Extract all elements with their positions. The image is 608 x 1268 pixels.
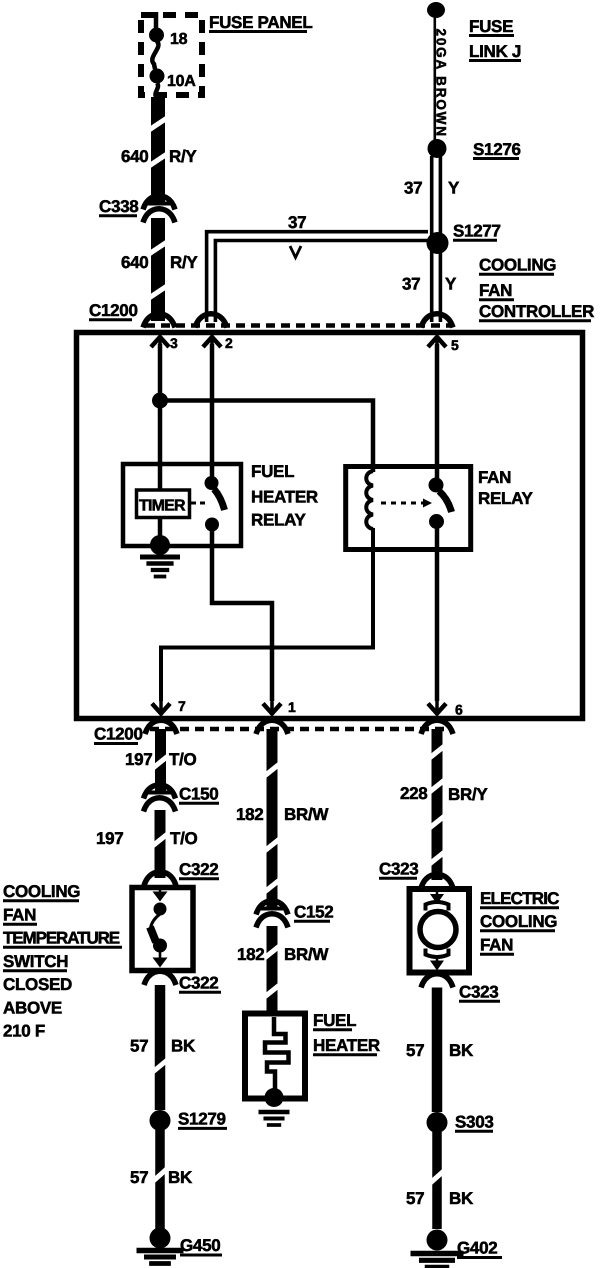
label ELECTRIC COOLING FAN [480, 889, 559, 955]
label 640 R/Y lower [121, 253, 198, 272]
wire color pointer Y [290, 246, 301, 258]
svg-text:FUEL: FUEL [313, 1011, 356, 1030]
connector C338 [143, 196, 175, 223]
label S303 [455, 1113, 494, 1132]
svg-text:TEMPERATURE: TEMPERATURE [3, 929, 120, 948]
svg-text:BK: BK [168, 1168, 193, 1187]
ground G402 [411, 1230, 464, 1268]
svg-text:FAN: FAN [479, 281, 512, 300]
svg-text:HEATER: HEATER [251, 488, 318, 507]
svg-text:BK: BK [449, 1189, 474, 1208]
wire fan contact to pin 6 [435, 528, 440, 701]
svg-text:RELAY: RELAY [251, 511, 307, 530]
fuse link wire 20GA BROWN [434, 10, 449, 141]
labels 37 Y lower right [402, 275, 457, 294]
timer U1 [137, 490, 190, 518]
pin 1 [263, 699, 296, 715]
dashed actuator link coil-contacts [381, 499, 432, 508]
svg-text:182: 182 [237, 945, 264, 964]
fuse panel dashed box [141, 15, 202, 95]
labels 197 T/O lower [96, 829, 198, 848]
svg-text:FUSE PANEL: FUSE PANEL [209, 13, 312, 32]
fuse 18 10A symbol [149, 12, 165, 98]
svg-text:S1276: S1276 [473, 140, 521, 159]
electric cooling fan box [410, 889, 470, 973]
wire 197 T/O upper [153, 729, 168, 792]
labels 57 BK lower [130, 1168, 193, 1187]
svg-text:BK: BK [171, 1037, 196, 1056]
wire 197 T/O lower [153, 810, 168, 878]
wire 57 BK right upper [432, 988, 443, 1113]
svg-text:Y: Y [448, 179, 460, 198]
svg-text:G450: G450 [180, 1236, 220, 1255]
svg-text:C150: C150 [179, 785, 218, 804]
svg-text:C1200: C1200 [89, 301, 138, 320]
wire junction to fan relay coil [160, 401, 373, 473]
svg-text:37: 37 [402, 275, 420, 294]
svg-text:2: 2 [225, 335, 233, 351]
labels 197 T/O [125, 750, 197, 769]
label G402 [457, 1239, 502, 1258]
svg-text:BR/W: BR/W [284, 805, 329, 824]
wire 640 R/Y upper segment [149, 97, 167, 204]
svg-text:57: 57 [130, 1037, 148, 1056]
ground G450 [137, 1228, 184, 1264]
label C338 [99, 197, 138, 216]
connector C150 [144, 785, 176, 812]
svg-text:FUSE: FUSE [469, 17, 513, 36]
label C323 lower [459, 983, 500, 1002]
labels 57 BK right lower [406, 1189, 474, 1208]
cooling fan temperature switch box [132, 888, 193, 971]
fuse link J terminal dot [427, 2, 445, 18]
svg-text:COOLING: COOLING [3, 882, 80, 901]
bell pin 1 [256, 720, 288, 734]
svg-text:COOLING: COOLING [479, 256, 556, 275]
connector bell pin 3 [143, 314, 175, 328]
label FUSE LINK J [469, 17, 521, 61]
label S1279 [178, 1110, 227, 1129]
svg-text:197: 197 [125, 750, 152, 769]
pin 2 [203, 335, 233, 478]
label C152 [294, 903, 333, 922]
ground (timer) [140, 557, 180, 577]
ground (fuel heater) [259, 1112, 290, 1125]
svg-text:HEATER: HEATER [313, 1036, 380, 1055]
splice S1277 [427, 232, 449, 254]
connector C322 lower bell [144, 971, 176, 985]
svg-text:640: 640 [121, 147, 148, 166]
svg-text:FAN: FAN [478, 468, 511, 487]
svg-text:T/O: T/O [169, 750, 197, 769]
wire 228 BR/Y [430, 729, 445, 880]
fan relay coil [366, 471, 373, 529]
label FUSE PANEL [209, 13, 312, 32]
label G450 [180, 1236, 222, 1255]
svg-text:182: 182 [236, 805, 263, 824]
label C150 [179, 785, 219, 804]
svg-text:640: 640 [121, 253, 148, 272]
svg-text:228: 228 [400, 784, 427, 803]
labels 182 BR/W lower [237, 945, 329, 964]
heater ground node [265, 1088, 284, 1107]
svg-text:S303: S303 [455, 1113, 494, 1132]
svg-text:C338: C338 [99, 197, 138, 216]
svg-text:7: 7 [178, 698, 186, 714]
dashed actuator link timer-contacts [191, 502, 209, 505]
svg-text:S1277: S1277 [453, 222, 501, 241]
svg-text:SWITCH: SWITCH [3, 952, 68, 971]
svg-text:ABOVE: ABOVE [3, 999, 62, 1018]
label S1276 [473, 140, 521, 159]
label FUEL HEATER RELAY [251, 462, 318, 530]
wire coil to pin 7 [161, 528, 373, 701]
label COOLING FAN TEMPERATURE SWITCH CLOSED ABOVE 210 F [3, 882, 122, 1041]
labels 57 BK right [406, 1041, 474, 1060]
pin 7 [152, 698, 186, 714]
fuel heater relay contacts [205, 476, 225, 532]
bell pin 7 [145, 720, 177, 734]
pin 3 [151, 335, 178, 400]
pin 5 [428, 337, 459, 480]
labels 57 BK [130, 1037, 196, 1056]
svg-text:57: 57 [406, 1189, 424, 1208]
svg-text:57: 57 [130, 1168, 148, 1187]
fuel heater relay box [123, 464, 241, 546]
labels 228 BR/Y [400, 784, 488, 804]
heater element [265, 1017, 289, 1090]
svg-text:210 F: 210 F [3, 1022, 45, 1041]
svg-text:20GA BROWN: 20GA BROWN [434, 29, 449, 137]
wire 57 BK left lower [153, 1130, 167, 1229]
svg-text:T/O: T/O [170, 829, 198, 848]
fuel heater box [245, 1014, 305, 1099]
label COOLING FAN CONTROLLER [479, 256, 594, 322]
wire 37 Y double line S1276 to S1277 [432, 156, 441, 235]
svg-text:18: 18 [170, 31, 188, 48]
wire 57 BK left upper [153, 985, 168, 1110]
svg-text:FAN: FAN [480, 936, 513, 955]
svg-text:FUEL: FUEL [251, 462, 294, 481]
wire 37 Y from S1277 down to pin 5 [432, 251, 441, 322]
wire 57 BK right lower [430, 1132, 444, 1229]
svg-text:TIMER: TIMER [139, 498, 186, 515]
wire 640 R/Y lower segment [149, 218, 167, 321]
label C323 upper [379, 860, 418, 879]
svg-text:R/Y: R/Y [169, 147, 197, 166]
svg-text:37: 37 [288, 213, 306, 232]
svg-text:CONTROLLER: CONTROLLER [479, 302, 594, 321]
svg-text:57: 57 [406, 1041, 424, 1060]
splice S303 [427, 1112, 448, 1133]
label C322 upper [179, 860, 219, 879]
label S1277 [453, 222, 501, 241]
svg-text:ELECTRIC: ELECTRIC [480, 889, 559, 908]
svg-text:3: 3 [170, 335, 178, 351]
bell pin 6 [421, 720, 453, 734]
splice S1276 [428, 139, 447, 158]
connector C323 upper bell [421, 874, 453, 888]
svg-text:BR/W: BR/W [284, 945, 329, 964]
connector bell pin 5 [421, 314, 453, 328]
svg-text:C322: C322 [179, 974, 218, 993]
svg-text:R/Y: R/Y [170, 253, 198, 272]
labels 182 BR/W [236, 805, 329, 824]
splice S1279 [150, 1110, 171, 1131]
svg-text:6: 6 [455, 702, 463, 718]
svg-text:S1279: S1279 [178, 1110, 226, 1129]
svg-text:G402: G402 [457, 1239, 497, 1258]
wire relay contact to pin 1 [212, 530, 272, 701]
junction node pin3 branch [152, 393, 168, 409]
svg-text:FAN: FAN [3, 906, 36, 925]
svg-text:C1200: C1200 [94, 725, 143, 744]
cooling fan controller box [77, 333, 583, 719]
connector C1200 dashed line top [146, 323, 450, 328]
label C322 lower [179, 974, 221, 993]
svg-text:10A: 10A [167, 73, 196, 90]
connector C322 upper bell [144, 872, 176, 886]
connector C1200 dashed line bottom [150, 727, 448, 732]
svg-text:RELAY: RELAY [478, 489, 534, 508]
pin 6 [428, 701, 463, 718]
svg-text:C323: C323 [459, 983, 498, 1002]
label C1200 top [89, 301, 138, 320]
svg-text:BK: BK [449, 1041, 474, 1060]
wire pin3 down to timer [158, 400, 163, 490]
svg-text:5: 5 [451, 337, 459, 353]
fan relay box [346, 467, 471, 550]
connector C323 lower bell [421, 974, 453, 988]
wire timer to ground dot [158, 518, 163, 545]
svg-text:BR/Y: BR/Y [448, 785, 488, 804]
label 640 R/Y [121, 147, 197, 166]
label FUEL HEATER [313, 1011, 380, 1055]
temperature switch contacts [150, 887, 168, 968]
svg-text:Y: Y [445, 275, 457, 294]
connector C152 [256, 901, 288, 928]
labels 37 Y [404, 179, 460, 198]
relay ground node [150, 535, 170, 555]
wire 37 Y branch (S1277 to pin 2) [207, 232, 428, 322]
fan motor M [420, 891, 456, 971]
svg-text:LINK J: LINK J [469, 42, 521, 61]
svg-text:COOLING: COOLING [480, 912, 557, 931]
svg-text:C152: C152 [294, 903, 333, 922]
wire 182 BR/W upper [265, 729, 280, 908]
svg-text:1: 1 [288, 699, 296, 715]
svg-text:C323: C323 [379, 860, 418, 879]
connector bell pin 2 [195, 314, 227, 328]
svg-text:197: 197 [96, 829, 123, 848]
label C1200 bottom [94, 725, 143, 744]
svg-text:37: 37 [404, 179, 422, 198]
svg-text:C322: C322 [179, 860, 218, 879]
fan relay contacts [429, 478, 452, 530]
wire 182 BR/W lower [265, 926, 280, 1014]
svg-text:CLOSED: CLOSED [3, 975, 72, 994]
label FAN RELAY [478, 468, 534, 508]
